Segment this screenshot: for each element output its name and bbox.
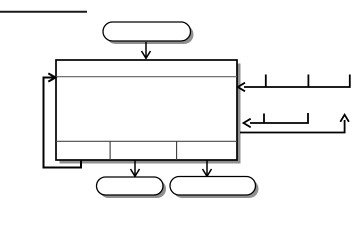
stadium bottom-left (shadow)	[100, 180, 167, 198]
arrow to bottom-right stadium	[203, 160, 212, 176]
feedback loop wire (bottom of rect, around left, into left edge)	[44, 73, 82, 167]
stadium bottom-right (shadow)	[173, 180, 259, 199]
connector C2: short arrow toward right edge with tick	[244, 113, 309, 127]
big rectangle	[56, 60, 237, 160]
wire top-left	[0, 11, 87, 13]
stadium top	[103, 22, 191, 41]
arrow from top stadium into big rectangle	[142, 42, 151, 58]
connector C1: into right edge with two ticks	[238, 75, 350, 92]
connector C3: out of right edge, up arrow	[240, 115, 349, 133]
arrow to bottom-left stadium	[131, 160, 140, 176]
stadium top (shadow)	[106, 25, 194, 44]
bottom band cell divider 2	[176, 141, 178, 160]
header divider	[56, 76, 237, 78]
stadium bottom-right	[170, 177, 256, 196]
big rectangle (shadow)	[60, 64, 241, 164]
bottom band cell divider 1	[109, 141, 111, 160]
stadium bottom-left	[97, 177, 164, 195]
bottom band divider	[56, 140, 237, 142]
